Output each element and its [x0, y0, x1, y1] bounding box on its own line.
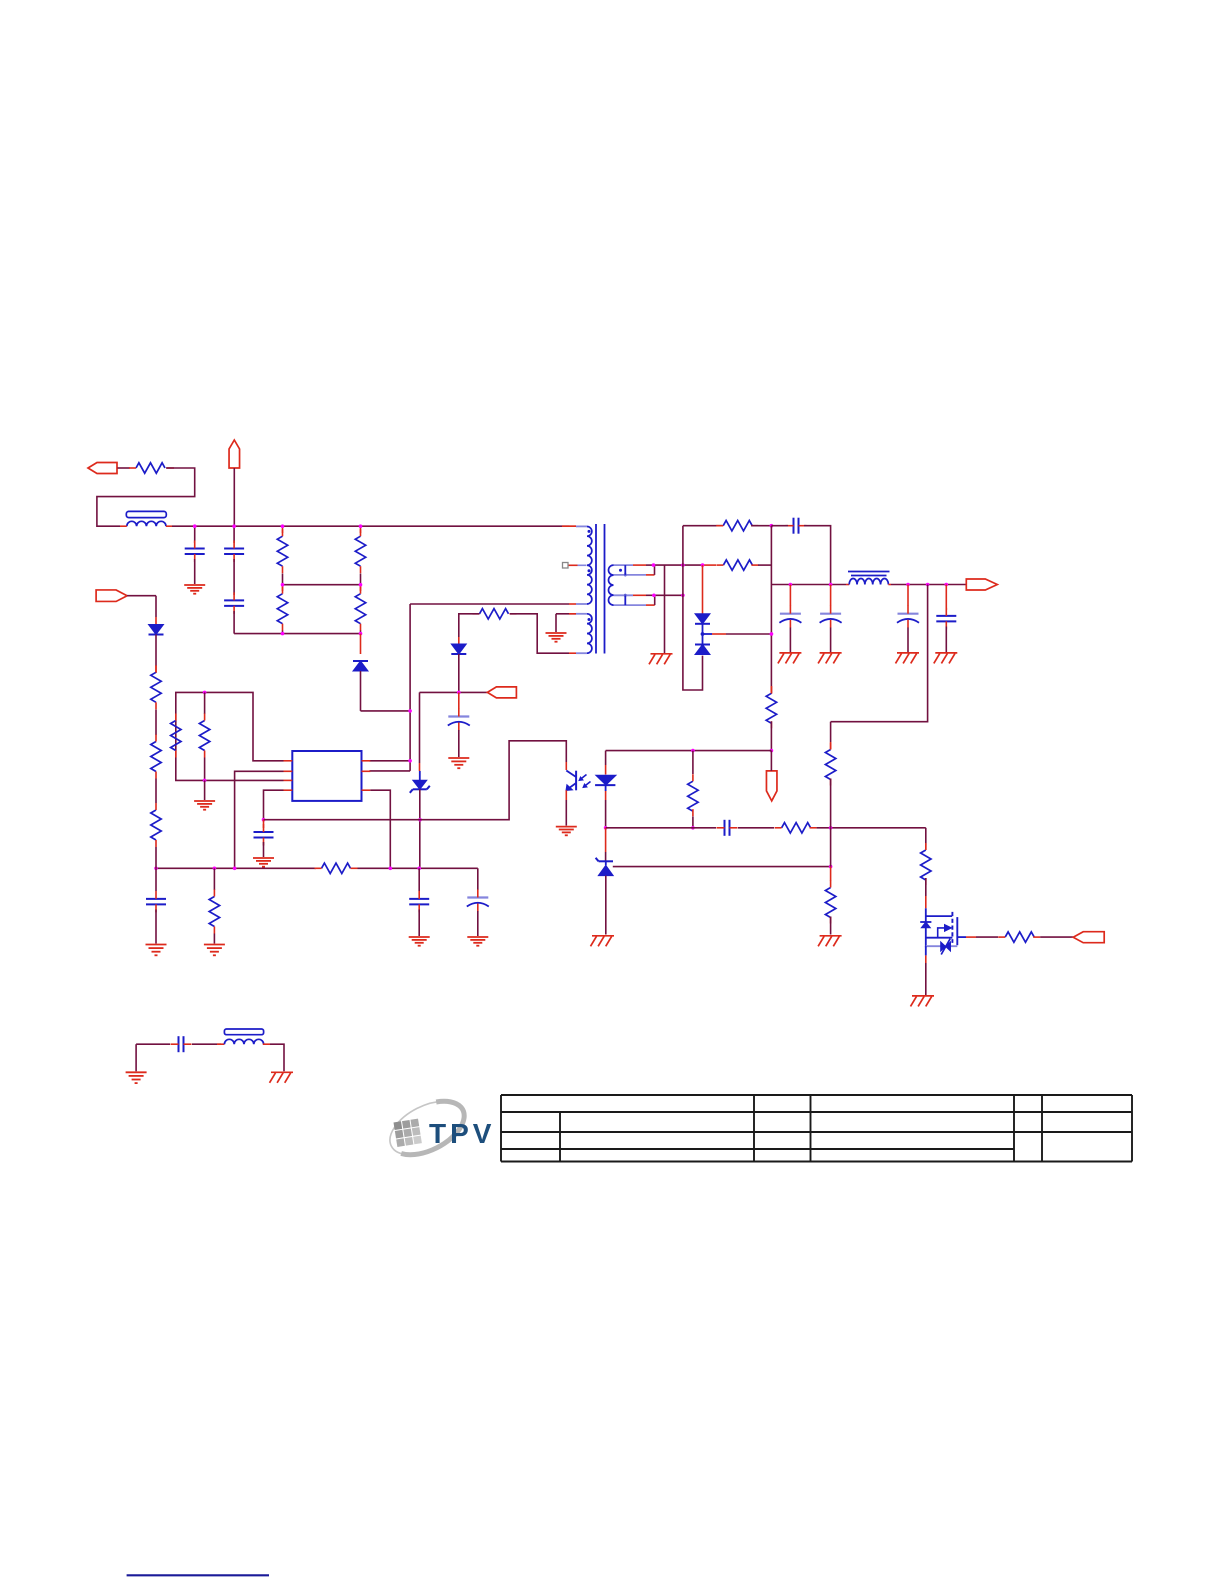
svg-text:TPV: TPV	[429, 1118, 495, 1149]
